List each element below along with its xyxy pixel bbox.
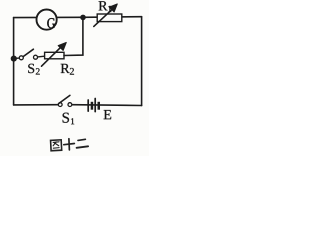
wire top (left corner to top-right corner)	[14, 16, 142, 19]
label S1	[63, 113, 75, 125]
wire node to switch S2	[14, 57, 19, 59]
wire left side	[13, 18, 15, 105]
rheostat R2	[42, 43, 67, 67]
label R2	[61, 64, 74, 75]
wire bottom-left corner to switch S1	[14, 104, 59, 106]
wire right side	[141, 17, 143, 106]
galvanometer G	[37, 10, 57, 30]
label R1	[99, 1, 112, 12]
wire R2 to node (right then up to top wire)	[64, 17, 83, 55]
wire S2 to R2	[38, 55, 45, 58]
label E	[104, 110, 111, 119]
character 图	[51, 140, 62, 151]
node junction dot on left wire	[11, 56, 17, 62]
caption 图十二 (figure twelve), drawn strokes	[51, 138, 89, 151]
node junction dot on top wire	[80, 15, 86, 21]
character 十	[64, 138, 75, 150]
battery E	[88, 99, 100, 112]
rheostat R1	[94, 4, 122, 26]
switch S2	[19, 49, 37, 60]
character 二	[76, 139, 88, 148]
wire S1 to battery to bottom-right corner	[72, 104, 142, 107]
switch S1	[58, 95, 72, 106]
label S2	[28, 64, 39, 75]
